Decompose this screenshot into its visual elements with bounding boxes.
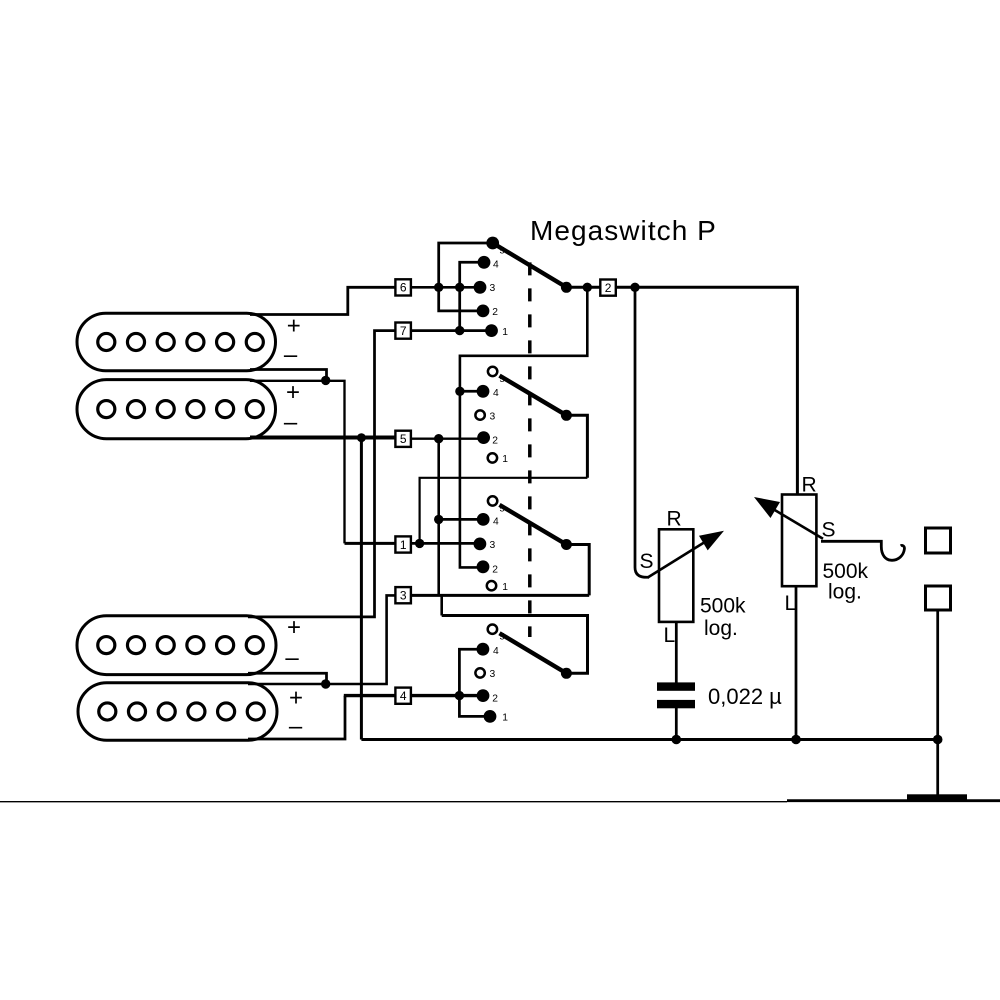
section 2 contact pos2 [477, 431, 490, 444]
svg-text:log.: log. [704, 617, 738, 640]
lug box 5 [395, 431, 411, 447]
potentiometer P2 volume 500k body [782, 495, 816, 587]
wire feed rail to section2 pos4 contact [460, 390, 483, 393]
pickup coil 3 (bridge humbucker, coil A) [77, 616, 276, 675]
wire output junction down to tone pot S hook [635, 287, 649, 577]
junction lug4 wire [455, 691, 464, 700]
lug box 3 [395, 587, 411, 603]
wire rail x438.7 down to lug3 wire [437, 439, 440, 596]
dashed switch lever link line [528, 262, 532, 637]
junction pot P2 / bus [791, 735, 801, 745]
svg-text:1: 1 [502, 327, 508, 338]
section 1 contact pos5 [486, 237, 499, 250]
wire coil2- to lug 5 (thick) [250, 436, 395, 440]
svg-text:–: – [285, 644, 299, 671]
wire pot P2 L down to ground bus [795, 586, 798, 740]
lug box 4 [395, 688, 411, 704]
wire section2 common to lug1 wire (Z path) [566, 415, 587, 478]
svg-text:5: 5 [500, 374, 505, 384]
svg-text:+: + [289, 685, 303, 712]
section 2 contact pos4 [477, 385, 490, 398]
junction node B (coil3- / coil4+) [321, 679, 330, 688]
svg-text:1: 1 [502, 582, 508, 593]
junction rail to section3 pos4 wire [434, 515, 443, 524]
section 4 contact pos1 [484, 710, 497, 723]
svg-text:S: S [640, 550, 654, 573]
svg-text:3: 3 [490, 411, 496, 422]
lug box 2 (output) [600, 280, 616, 296]
svg-text:3: 3 [490, 540, 496, 551]
svg-text:4: 4 [493, 388, 499, 399]
svg-text:4: 4 [493, 646, 499, 657]
junction on lug7 wire [455, 326, 464, 335]
section 3 contact pos5 (open) [488, 496, 497, 505]
svg-text:3: 3 [400, 589, 407, 603]
section 1 contact pos4 [478, 256, 491, 269]
svg-text:3: 3 [490, 669, 496, 680]
svg-text:7: 7 [400, 324, 407, 338]
section 4 contact pos4 [477, 643, 490, 656]
svg-text:4: 4 [493, 517, 499, 528]
svg-text:log.: log. [828, 580, 862, 603]
wire coil2+ to series link node A and down to lug 1 wire [250, 381, 345, 544]
svg-text:+: + [287, 313, 301, 340]
wire coil1- to series link node A [250, 370, 327, 381]
junction feed rail to section2 pos4 [455, 387, 464, 396]
ground symbol bar [907, 794, 967, 801]
capacitor C1 0.022u plate 1 [657, 682, 695, 690]
wire y615.5 cross wire to section4 common [442, 616, 588, 674]
wire lug 1 to section3 pos3 contact [411, 542, 480, 545]
switch section 1 wiper [493, 243, 567, 287]
svg-text:4: 4 [400, 689, 407, 703]
section1 common dot [561, 282, 572, 293]
svg-text:R: R [802, 474, 817, 497]
svg-text:1: 1 [502, 454, 508, 465]
wire bus to ground symbol [936, 740, 939, 795]
wire lug 1 left stub [345, 542, 396, 545]
svg-text:1: 1 [400, 538, 407, 552]
wire section1 common to lug 2 and on to volume pot R [566, 287, 797, 494]
wire to section3 pos4 contact [439, 518, 484, 521]
svg-text:R: R [667, 508, 682, 531]
wire lug 4 to section4 pos2 contact [411, 694, 483, 697]
wire coil4+ to series link node B and up to lug 3 [248, 595, 395, 684]
wire coil3- to series link node B [248, 673, 327, 684]
section 3 contact pos2 [477, 560, 490, 573]
svg-text:+: + [286, 379, 300, 406]
wire loop lug3 wire down to y615.5 cross wire [440, 595, 443, 615]
section 4 contact pos2 [477, 689, 490, 702]
pickup coil 4 (bridge humbucker, coil B) [78, 683, 277, 740]
wire coil3+ up to lug 7 [248, 331, 395, 617]
wire lug 4 left stub [344, 694, 396, 697]
section 2 contact pos3 (open) [475, 410, 484, 419]
section4 common dot [561, 668, 572, 679]
wire section1 pos5 contact to pos2 contact (left loop) [439, 243, 493, 311]
section 4 contact pos5 (open) [488, 625, 497, 634]
lug box 7 [395, 323, 411, 339]
wire jack sleeve to ground bus [936, 610, 939, 740]
section 3 contact pos3 [474, 538, 487, 551]
junction capacitor/bus [672, 735, 682, 745]
svg-text:3: 3 [490, 283, 496, 294]
section 2 contact pos1 (open) [488, 453, 497, 462]
wire lug 3 to x589 rail [411, 594, 589, 597]
svg-text:5: 5 [500, 503, 505, 513]
section 3 contact pos4 [477, 513, 490, 526]
wire section4 pos4 contact down to lug4 junction [459, 649, 483, 695]
svg-text:–: – [289, 713, 303, 740]
wire lug 6 to switch contacts row [411, 286, 480, 289]
svg-text:2: 2 [492, 307, 498, 318]
wire feed from output down to section2/3 contact rail [460, 287, 587, 567]
junction lug5 wire to vertical rail x438.7 [434, 434, 443, 443]
section3 common dot [561, 539, 572, 550]
section 2 contact pos5 (open) [488, 367, 497, 376]
wire section3 common up-feed from lug3 wire [566, 545, 589, 596]
pickup coil 2 (neck humbucker, coil B) [77, 380, 276, 439]
svg-text:2: 2 [492, 564, 498, 575]
junction on lug6 wire at x459.7 [455, 283, 464, 292]
wire ground rail vertical from coil2- junction down to bus [360, 438, 363, 740]
junction node A (coil1- / coil2+) [321, 376, 330, 385]
section 1 contact pos2 [477, 305, 490, 318]
switch section 3 wiper [500, 505, 567, 545]
junction output to tone pot [630, 283, 639, 292]
svg-text:5: 5 [500, 632, 505, 642]
ground baseline thick [787, 799, 1000, 802]
potentiometer P1 tone 500k body [659, 529, 693, 622]
section 1 contact pos3 [474, 281, 487, 294]
svg-text:4: 4 [493, 260, 499, 271]
ground baseline thin [0, 801, 787, 803]
svg-text:5: 5 [400, 432, 407, 446]
ground bus horizontal [361, 738, 937, 741]
svg-text:2: 2 [492, 693, 498, 704]
pickup coil 1 (neck humbucker, coil A) [77, 313, 276, 371]
svg-text:0,022 µ: 0,022 µ [708, 684, 782, 709]
wire coil1+ to lug 6 [250, 287, 395, 314]
svg-text:2: 2 [492, 435, 498, 446]
wire lug 5 to section2 pos2 contact [411, 438, 484, 440]
junction lug1 wire / section2 common [415, 539, 424, 548]
wire pot P2 S to jack with crossover hop [821, 541, 904, 560]
svg-text:L: L [664, 624, 676, 647]
capacitor C1 plate 2 [657, 700, 695, 708]
svg-text:S: S [822, 519, 836, 542]
svg-text:Megaswitch P: Megaswitch P [530, 215, 717, 246]
svg-text:1: 1 [502, 713, 508, 724]
wire lug 7 to section1 pos1 contact [411, 329, 492, 332]
svg-text:L: L [785, 592, 797, 615]
svg-text:500k: 500k [700, 595, 746, 618]
section 4 contact pos3 (open) [475, 668, 484, 677]
svg-text:–: – [284, 409, 298, 436]
wire lug4 junction to section4 pos1 contact [459, 696, 490, 717]
section 3 contact pos1 (open) [487, 581, 496, 590]
section 1 contact pos1 [485, 324, 498, 337]
switch section 2 wiper [500, 376, 567, 416]
junction on coil2- wire to ground rail [357, 433, 366, 442]
wire section1 pos4 contact to pos1 contact (left loop) [460, 262, 484, 330]
wire pot P1 to capacitor [675, 622, 678, 683]
pot P2 wiper arrow [771, 508, 824, 539]
svg-text:–: – [284, 341, 298, 368]
junction output to section2 feed [583, 283, 592, 292]
pot P1 wiper arrow [648, 540, 708, 577]
svg-text:2: 2 [605, 281, 612, 295]
lug box 6 [395, 279, 411, 295]
junction jack/bus [933, 735, 943, 745]
section2 common dot [561, 410, 572, 421]
junction on lug6 wire at x438.7 [434, 283, 443, 292]
wire capacitor to ground bus [675, 707, 678, 740]
svg-text:5: 5 [500, 246, 505, 256]
jack sleeve contact square [926, 586, 951, 610]
lug box 1 [395, 536, 411, 552]
svg-text:6: 6 [400, 281, 407, 295]
jack tip contact square [926, 528, 951, 553]
switch section 4 wiper [500, 633, 567, 673]
wire coil4- up to lug 4 wire [248, 696, 345, 739]
